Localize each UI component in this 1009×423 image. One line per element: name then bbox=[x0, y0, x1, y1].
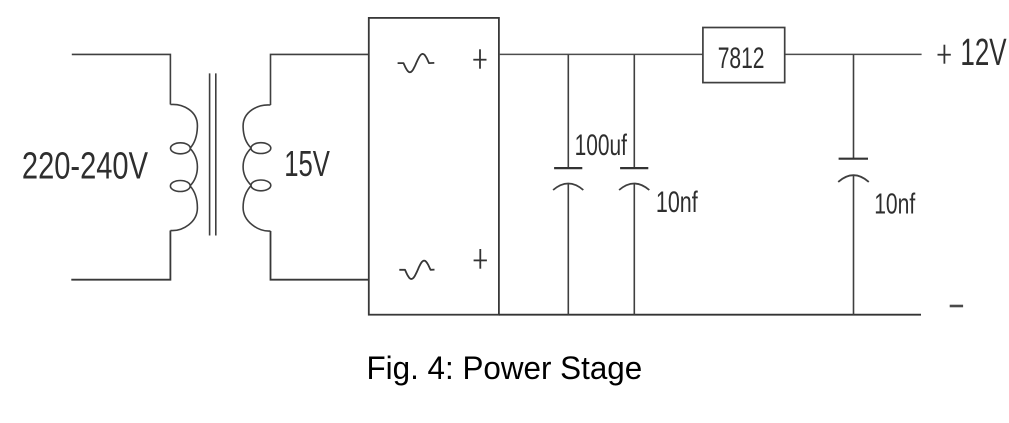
capacitor C3 top lead bbox=[853, 54, 855, 158]
wire +12V rail (rectifier to 7812) bbox=[499, 53, 703, 55]
capacitor C1 top lead bbox=[567, 54, 569, 168]
svg-text:100uf: 100uf bbox=[575, 129, 628, 162]
capacitor C1 plates bbox=[553, 168, 583, 190]
capacitor C3 plates bbox=[838, 159, 869, 182]
svg-text:10nf: 10nf bbox=[874, 189, 916, 221]
capacitor C2 top lead bbox=[633, 54, 635, 168]
bridge rectifier AC symbol top bbox=[398, 54, 435, 72]
svg-text:220-240V: 220-240V bbox=[22, 145, 148, 187]
regulator U1 7812 box bbox=[703, 28, 785, 83]
wire primary top bbox=[72, 54, 171, 104]
capacitor C1 bottom lead bbox=[567, 184, 569, 315]
minus mark of output bbox=[950, 305, 963, 308]
svg-text:15V: 15V bbox=[284, 143, 330, 184]
plus mark of +12V output bbox=[938, 45, 951, 64]
wire primary bottom bbox=[71, 231, 170, 280]
wire secondary bottom bbox=[271, 231, 369, 280]
svg-text:12V: 12V bbox=[960, 31, 1006, 73]
svg-text:10nf: 10nf bbox=[656, 187, 698, 219]
svg-text:7812: 7812 bbox=[718, 42, 765, 75]
transformer T1 secondary winding bbox=[243, 105, 271, 231]
capacitor C2 bottom lead bbox=[633, 184, 635, 315]
svg-text:Fig. 4: Power Stage: Fig. 4: Power Stage bbox=[367, 350, 643, 386]
capacitor C2 plates bbox=[619, 168, 649, 190]
capacitor C3 bottom lead bbox=[853, 175, 855, 315]
bridge rectifier AC symbol bottom bbox=[399, 261, 434, 279]
transformer T1 core bbox=[210, 73, 216, 235]
wire +12V rail (7812 to output) bbox=[785, 53, 922, 55]
bridge rectifier BR1 box bbox=[369, 18, 499, 315]
bridge rectifier plus mark top bbox=[473, 49, 486, 68]
transformer T1 primary winding bbox=[170, 104, 197, 230]
wire secondary top bbox=[271, 54, 369, 105]
bridge rectifier plus mark bottom bbox=[474, 249, 487, 269]
wire ground rail bbox=[499, 314, 921, 316]
